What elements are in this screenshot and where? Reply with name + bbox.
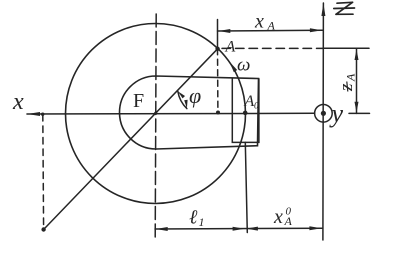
- svg-text:A: A: [284, 214, 293, 228]
- svg-text:y: y: [329, 99, 344, 128]
- svg-text:x: x: [273, 206, 283, 228]
- svg-text:A: A: [344, 73, 358, 82]
- svg-text:x: x: [254, 11, 264, 33]
- svg-text:A: A: [244, 93, 255, 110]
- svg-text:A: A: [225, 39, 236, 56]
- svg-text:ℓ: ℓ: [189, 207, 198, 229]
- svg-text:x: x: [12, 89, 24, 115]
- svg-text:F: F: [133, 90, 144, 112]
- svg-text:A: A: [267, 19, 276, 33]
- svg-text:1: 1: [199, 215, 205, 229]
- svg-text:φ: φ: [189, 83, 201, 108]
- svg-text:0: 0: [254, 102, 259, 112]
- svg-text:ω: ω: [237, 55, 250, 76]
